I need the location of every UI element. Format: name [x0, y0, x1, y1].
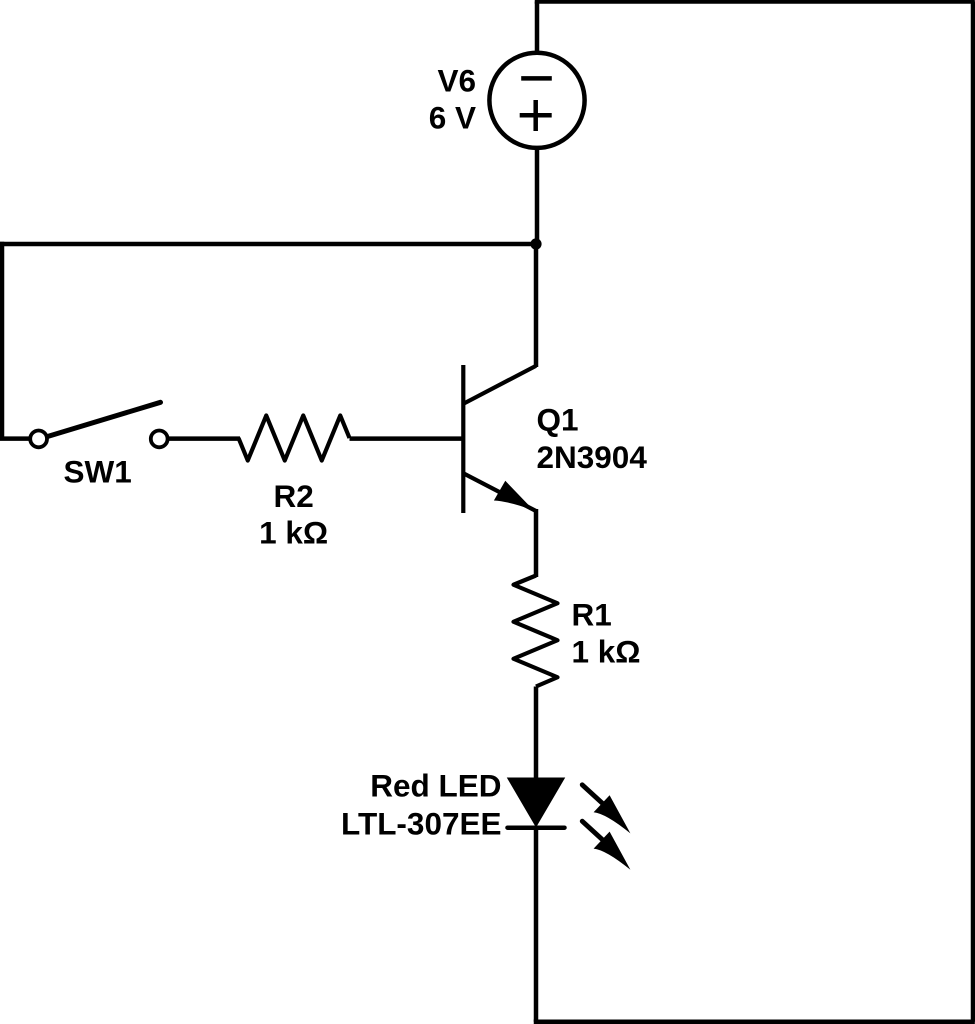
wire: left rail [0, 242, 4, 439]
svg-text:Q1: Q1 [537, 401, 579, 437]
wire: Q1 emitter to R1 [534, 509, 539, 577]
junction node at V6/collector/left rail [530, 238, 541, 249]
resistor R2 [239, 416, 350, 461]
resistor R1 [514, 576, 558, 687]
svg-text:2N3904: 2N3904 [537, 439, 648, 475]
wire: junction to left rail [0, 242, 537, 247]
wire: bottom rail [534, 1020, 975, 1024]
wire: R2 to Q1 base [350, 436, 464, 441]
wire: LED cathode lead to bottom rail [534, 826, 539, 1022]
voltage source V6 circle [489, 53, 584, 148]
wire: right rail [971, 2, 975, 1022]
switch SW1 lever [48, 402, 161, 436]
V6 plus sign [520, 100, 552, 131]
wire: V6 top lead [535, 2, 540, 54]
transistor Q1 emitter arrowhead [494, 481, 534, 511]
switch SW1 pole terminal [30, 431, 47, 448]
wire: left rail to SW1 pole [0, 436, 30, 441]
transistor Q1 base bar [461, 365, 465, 513]
svg-text:R2: R2 [273, 478, 313, 514]
wire: SW1 to R2 [169, 436, 240, 441]
LED light arrow 1 shaft [582, 785, 603, 804]
svg-text:V6: V6 [437, 62, 476, 98]
LED light arrow 1 head [594, 795, 631, 833]
svg-text:1 kΩ: 1 kΩ [572, 633, 641, 669]
LED light arrow 2 shaft [582, 821, 603, 840]
LED cathode bar [508, 825, 565, 830]
svg-text:1 kΩ: 1 kΩ [259, 515, 328, 551]
LED anode triangle [509, 779, 564, 826]
wire: top rail [535, 0, 975, 4]
wire: Q1 collector to junction [534, 242, 539, 367]
svg-text:6 V: 6 V [429, 100, 476, 136]
wire: R1 to LED anode [534, 687, 539, 781]
svg-text:R1: R1 [572, 596, 612, 632]
wire: V6 bottom lead to junction [535, 148, 540, 244]
svg-text:Red LED: Red LED [370, 768, 501, 804]
switch SW1 throw terminal [151, 431, 168, 448]
LED light arrow 2 head [594, 832, 631, 870]
svg-text:SW1: SW1 [63, 453, 131, 489]
V6 minus sign [521, 76, 552, 81]
transistor Q1 emitter lead [463, 473, 536, 511]
svg-text:LTL-307EE: LTL-307EE [341, 806, 501, 842]
transistor Q1 collector lead [463, 366, 536, 404]
